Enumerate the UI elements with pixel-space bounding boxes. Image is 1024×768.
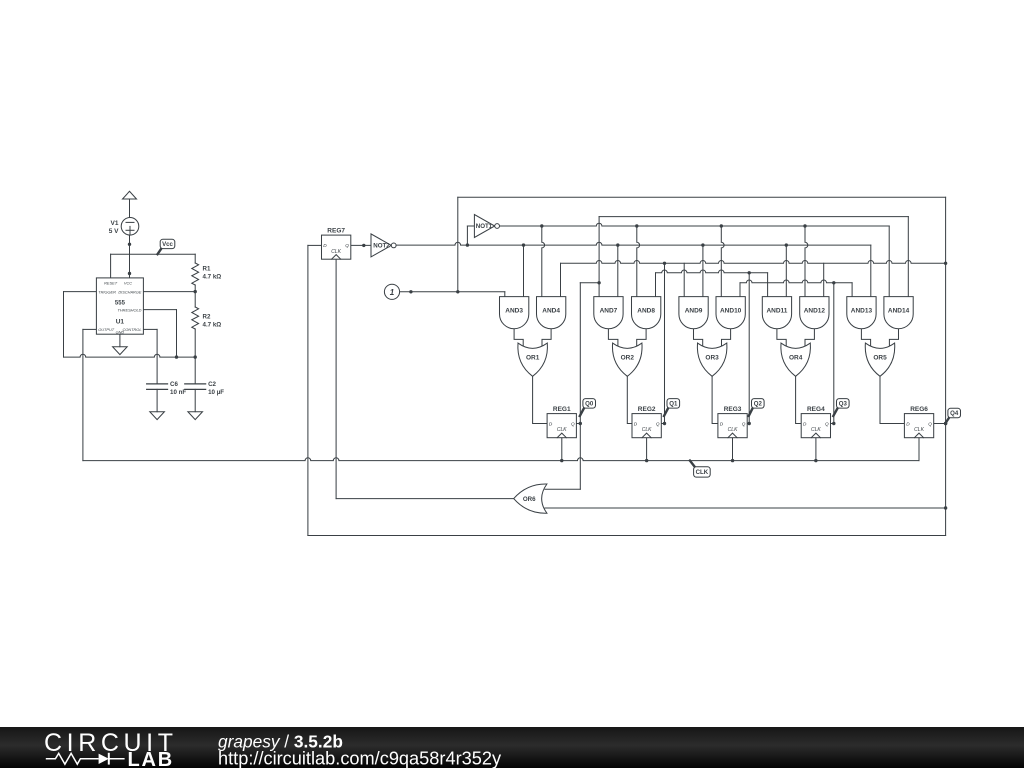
svg-text:Q: Q [571, 421, 575, 426]
svg-text:OR2: OR2 [621, 355, 635, 362]
svg-text:AND8: AND8 [637, 307, 655, 314]
svg-text:U1: U1 [116, 319, 125, 326]
svg-text:Q0: Q0 [585, 400, 594, 407]
svg-text:Q4: Q4 [950, 410, 959, 417]
svg-text:R1: R1 [203, 266, 211, 273]
svg-text:Q: Q [656, 421, 660, 426]
svg-text:AND11: AND11 [766, 307, 787, 314]
svg-text:http://circuitlab.com/c9qa58r4: http://circuitlab.com/c9qa58r4r352y [218, 749, 502, 768]
svg-text:1: 1 [390, 288, 395, 297]
svg-text:10 nF: 10 nF [170, 389, 186, 396]
svg-text:REG3: REG3 [724, 406, 742, 413]
svg-text:DISCHARGE: DISCHARGE [118, 289, 142, 294]
svg-text:NOT1: NOT1 [476, 223, 493, 230]
svg-text:OR6: OR6 [523, 496, 536, 503]
svg-text:AND12: AND12 [804, 307, 826, 314]
svg-text:AND7: AND7 [600, 307, 618, 314]
svg-text:R2: R2 [203, 314, 211, 321]
svg-text:OR4: OR4 [789, 355, 803, 362]
svg-text:Q: Q [345, 243, 349, 248]
svg-text:OR1: OR1 [526, 355, 540, 362]
svg-text:CLK: CLK [811, 427, 821, 433]
svg-text:CONTROL: CONTROL [122, 327, 141, 332]
svg-text:OR3: OR3 [705, 355, 719, 362]
svg-text:CLK: CLK [331, 249, 341, 255]
svg-text:Q2: Q2 [754, 400, 763, 407]
svg-text:OR5: OR5 [873, 355, 887, 362]
svg-text:4.7 kΩ: 4.7 kΩ [203, 273, 222, 280]
svg-text:CLK: CLK [557, 427, 567, 433]
svg-text:OUTPUT: OUTPUT [98, 327, 115, 332]
svg-text:CLK: CLK [914, 427, 924, 433]
svg-text:10 µF: 10 µF [208, 389, 224, 396]
svg-text:AND3: AND3 [505, 307, 523, 314]
svg-text:AND4: AND4 [542, 307, 560, 314]
svg-text:CLK: CLK [696, 469, 709, 476]
svg-text:Vcc: Vcc [162, 241, 173, 248]
svg-text:RESET: RESET [104, 280, 118, 285]
svg-text:Q1: Q1 [669, 400, 678, 407]
svg-text:LAB: LAB [128, 749, 175, 768]
svg-text:GND: GND [116, 330, 125, 335]
svg-text:555: 555 [115, 301, 126, 307]
svg-text:REG4: REG4 [807, 406, 825, 413]
svg-text:C2: C2 [208, 381, 216, 388]
svg-text:NOT2: NOT2 [373, 243, 390, 250]
svg-text:THRESHOLD: THRESHOLD [118, 307, 142, 312]
svg-text:REG1: REG1 [553, 406, 571, 413]
svg-text:4.7 kΩ: 4.7 kΩ [203, 321, 222, 328]
svg-text:AND9: AND9 [685, 307, 703, 314]
svg-text:AND13: AND13 [851, 307, 873, 314]
svg-text:Q: Q [742, 421, 746, 426]
svg-text:REG7: REG7 [327, 227, 345, 234]
svg-text:C6: C6 [170, 381, 178, 388]
svg-text:CLK: CLK [642, 427, 652, 433]
svg-text:REG6: REG6 [910, 406, 928, 413]
svg-text:CLK: CLK [728, 427, 738, 433]
svg-text:TRIGGER: TRIGGER [98, 289, 116, 294]
svg-text:V1: V1 [111, 220, 119, 227]
svg-text:REG2: REG2 [638, 406, 656, 413]
svg-text:Q3: Q3 [839, 400, 848, 407]
svg-text:Q: Q [825, 421, 829, 426]
svg-text:D: D [634, 421, 638, 426]
svg-text:5 V: 5 V [109, 228, 119, 235]
svg-text:AND10: AND10 [720, 307, 742, 314]
svg-text:D: D [323, 243, 327, 248]
svg-text:VCC: VCC [124, 280, 132, 285]
svg-text:Q: Q [928, 421, 932, 426]
svg-text:AND14: AND14 [888, 307, 910, 314]
